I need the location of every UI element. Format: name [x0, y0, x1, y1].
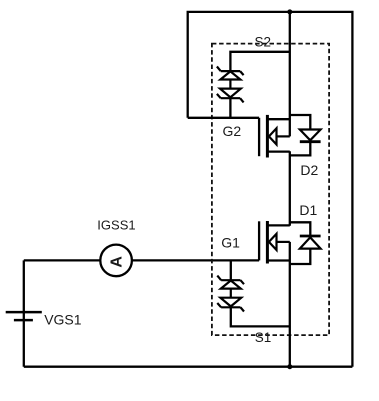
- svg-text:G2: G2: [223, 123, 242, 139]
- transistor Q2 body arrow: [269, 128, 290, 144]
- wire battery to ammeter: [24, 259, 101, 261]
- junction node top: [287, 9, 292, 14]
- wire main vertical segment 3: [289, 242, 291, 367]
- svg-text:G1: G1: [221, 235, 240, 251]
- zener pair upper (gate-source clamp of Q2): [217, 67, 244, 103]
- wire ammeter to gate G1: [132, 259, 259, 261]
- svg-text:A: A: [108, 256, 125, 268]
- wire outer loop (top-left edge, top edge, right edge): [188, 12, 353, 367]
- battery VGS1: [6, 312, 42, 320]
- wire left branch (battery leg): [23, 260, 25, 366]
- diode D2 (body diode of Q2): [300, 130, 321, 142]
- diode D2 branch wires: [290, 115, 311, 155]
- transistor Q1 body arrow: [269, 234, 290, 250]
- transistor Q2 channel bar: [266, 115, 269, 158]
- dashed package outline: [212, 44, 329, 336]
- svg-text:S2: S2: [255, 34, 272, 49]
- svg-text:IGSS1: IGSS1: [97, 218, 135, 233]
- wire main vertical segment 2: [289, 151, 291, 226]
- wire node S1 (zener bottom to main vertical): [231, 307, 290, 326]
- ammeter IGSS1: [100, 245, 132, 277]
- wire node G2 (left edge to gate bar): [188, 117, 259, 119]
- zener pair lower (gate-source clamp of Q1): [217, 276, 244, 312]
- wire main vertical segment 1: [289, 12, 291, 136]
- wire bottom rail: [24, 366, 353, 368]
- wire zener to G2 line: [229, 98, 231, 118]
- diode D1 (body diode of Q1): [300, 236, 321, 249]
- transistor Q2 drain/source leads: [267, 119, 289, 151]
- transistor Q1 gate bar: [258, 221, 260, 260]
- wire gate G1 zener tap: [230, 260, 232, 280]
- svg-text:D1: D1: [299, 202, 317, 218]
- wire node S2 (from upper zener to main vertical): [230, 52, 289, 71]
- svg-text:D2: D2: [300, 162, 318, 178]
- svg-text:S1: S1: [255, 330, 272, 345]
- transistor Q1 drain/source leads: [267, 225, 289, 260]
- transistor Q1 channel bar: [266, 221, 269, 264]
- diode D1 branch wires: [290, 222, 311, 264]
- junction node bottom: [287, 364, 292, 369]
- transistor Q2 gate bar: [258, 118, 260, 156]
- svg-text:VGS1: VGS1: [44, 312, 82, 328]
